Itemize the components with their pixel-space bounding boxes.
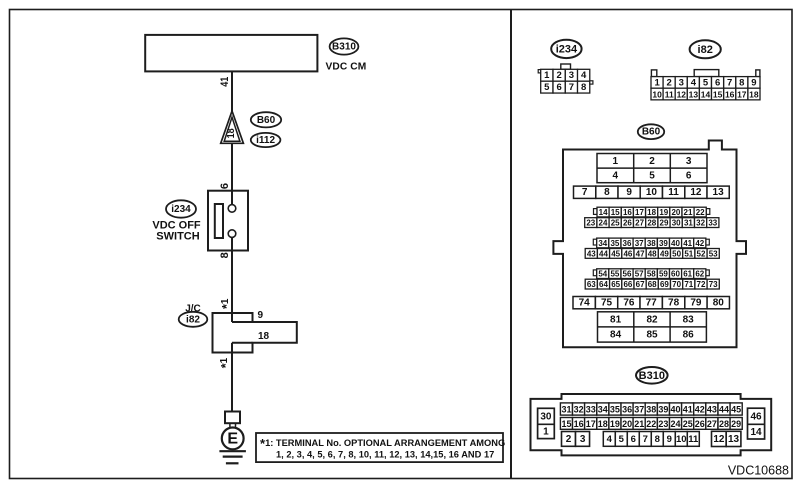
svg-text:39: 39 [658, 405, 668, 415]
svg-text:72: 72 [697, 280, 706, 289]
svg-text:36: 36 [622, 405, 632, 415]
B60 pin row 34-42 [597, 238, 706, 248]
svg-text:41: 41 [683, 405, 693, 415]
svg-text:29: 29 [731, 419, 741, 429]
pin number 41 (VDC CM) [219, 77, 231, 87]
svg-text:22: 22 [646, 419, 656, 429]
svg-text:55: 55 [610, 270, 619, 279]
B60 row 34-42 left end tab [593, 239, 596, 245]
svg-text:14: 14 [701, 90, 711, 100]
svg-text:64: 64 [599, 280, 608, 289]
i234 connector top tab [561, 64, 571, 69]
wire from VDC CM pin 41 to connector B60/i112 [231, 71, 233, 111]
svg-text:17: 17 [586, 419, 596, 429]
svg-text:SWITCH: SWITCH [156, 231, 199, 243]
svg-text:5: 5 [703, 77, 709, 88]
svg-text:59: 59 [659, 270, 668, 279]
svg-text:42: 42 [695, 405, 705, 415]
svg-text:4: 4 [607, 434, 613, 445]
svg-text:12: 12 [690, 187, 702, 198]
i82 connector left tab [651, 70, 656, 77]
svg-text:62: 62 [695, 270, 704, 279]
label VDC CM [326, 61, 367, 72]
svg-text:1: 1 [654, 77, 660, 88]
svg-text:53: 53 [709, 249, 718, 258]
svg-text:65: 65 [611, 280, 620, 289]
B60 pin row 7-13 [574, 186, 730, 198]
B60 pin row 74-80 [573, 297, 729, 309]
svg-text:16: 16 [725, 90, 735, 100]
svg-text:*1: *1 [219, 357, 233, 368]
inline connector symbol B60/i112 (double triangle) [221, 111, 244, 143]
pin number 18 (connector i112) [226, 128, 237, 138]
VDC CM control module box B310 [145, 35, 317, 72]
B60 pin grid 81-86 [598, 312, 707, 342]
svg-text:43: 43 [587, 249, 596, 258]
svg-text:45: 45 [731, 405, 741, 415]
svg-text:56: 56 [623, 270, 632, 279]
svg-text:48: 48 [648, 249, 657, 258]
i82 pin row 1-9 [651, 77, 760, 89]
svg-text:25: 25 [611, 219, 620, 228]
svg-text:60: 60 [671, 270, 680, 279]
svg-text:6: 6 [219, 183, 231, 189]
svg-text:7: 7 [569, 82, 574, 93]
svg-text:B310: B310 [332, 42, 356, 53]
svg-text:47: 47 [636, 249, 645, 258]
svg-text:9: 9 [751, 77, 756, 88]
svg-text:18: 18 [598, 419, 608, 429]
svg-text:79: 79 [690, 298, 702, 309]
connector label i234 (pinout) [551, 40, 581, 58]
svg-text:21: 21 [634, 419, 644, 429]
svg-text:77: 77 [646, 298, 658, 309]
svg-text:34: 34 [598, 239, 607, 248]
wire stub from lower switch contact [231, 237, 233, 250]
B60 row 54-62 right end tab [706, 270, 709, 276]
wire from connector to VDC OFF switch pin 6 [231, 143, 233, 190]
wire from switch pin 8 to joint connector [231, 251, 233, 314]
svg-text:10: 10 [652, 90, 662, 100]
VDC OFF SWITCH body [208, 191, 248, 251]
B60 row 34-42 right end tab [706, 239, 709, 245]
B60 connector outline with tabs [553, 141, 746, 348]
svg-text:83: 83 [683, 314, 695, 325]
svg-text:13: 13 [689, 90, 699, 100]
svg-text:8: 8 [219, 252, 231, 258]
svg-text:12: 12 [713, 434, 725, 445]
svg-text:32: 32 [574, 405, 584, 415]
svg-text:6: 6 [715, 77, 720, 88]
B60 row 54-62 left end tab [593, 270, 596, 276]
svg-text:28: 28 [647, 219, 656, 228]
svg-text:VDC10688: VDC10688 [728, 464, 789, 478]
svg-text:16: 16 [574, 419, 584, 429]
svg-text:16: 16 [623, 208, 632, 217]
svg-text:35: 35 [610, 405, 620, 415]
svg-text:86: 86 [683, 330, 695, 341]
svg-text:46: 46 [623, 249, 632, 258]
svg-text:37: 37 [634, 405, 644, 415]
panel divider line [510, 10, 512, 479]
svg-text:2: 2 [556, 70, 561, 81]
svg-text:B60: B60 [257, 115, 276, 126]
svg-text:31: 31 [561, 405, 571, 415]
svg-text:31: 31 [684, 219, 693, 228]
svg-text:24: 24 [670, 419, 680, 429]
svg-text:26: 26 [623, 219, 632, 228]
svg-text:14: 14 [599, 208, 608, 217]
svg-text:18: 18 [258, 331, 270, 342]
svg-text:73: 73 [709, 280, 718, 289]
svg-text:3: 3 [569, 70, 574, 81]
ground point E circle [222, 428, 244, 450]
svg-text:i234: i234 [171, 204, 191, 215]
svg-text:6: 6 [556, 82, 561, 93]
svg-text:6: 6 [686, 170, 692, 181]
svg-text:75: 75 [601, 298, 613, 309]
connector label B310 (VDC CM) [330, 38, 359, 54]
svg-text:1: 1 [543, 427, 549, 438]
pin label *1 below joint connector [219, 357, 233, 368]
svg-text:18: 18 [647, 208, 656, 217]
svg-text:25: 25 [683, 419, 693, 429]
svg-text:74: 74 [579, 298, 591, 309]
svg-text:63: 63 [587, 280, 596, 289]
i234 connector right lock tab [590, 81, 593, 84]
svg-text:46: 46 [750, 411, 762, 422]
svg-text:71: 71 [684, 280, 693, 289]
svg-text:24: 24 [599, 219, 608, 228]
svg-text:26: 26 [695, 419, 705, 429]
B60 row 14-22 right end tab [706, 209, 710, 215]
svg-text:27: 27 [635, 219, 644, 228]
svg-text:20: 20 [671, 208, 680, 217]
svg-text:28: 28 [719, 419, 729, 429]
svg-text:4: 4 [581, 70, 587, 81]
svg-text:36: 36 [623, 239, 632, 248]
ground terminal neck [230, 423, 236, 428]
i234 connector top-left lock tab [538, 70, 541, 73]
label VDC OFF SWITCH [152, 219, 201, 242]
i234 pin row 5-8 [541, 81, 590, 93]
lower switch contact [228, 230, 236, 238]
svg-text:23: 23 [586, 219, 595, 228]
switch actuator slot [215, 204, 223, 238]
svg-text:1: 1 [613, 156, 619, 167]
svg-text:17: 17 [737, 90, 747, 100]
svg-text:84: 84 [610, 330, 622, 341]
pin number 9 (J/C) [258, 310, 264, 321]
connector label B60 (pinout) [638, 124, 664, 139]
svg-text:6: 6 [631, 434, 636, 445]
svg-text:2: 2 [649, 156, 655, 167]
svg-text:80: 80 [713, 298, 725, 309]
label J/C [185, 303, 201, 314]
svg-text:7: 7 [643, 434, 648, 445]
svg-text:4: 4 [613, 170, 619, 181]
svg-text:50: 50 [672, 249, 681, 258]
svg-text:41: 41 [219, 77, 231, 87]
B310 pin row 4-11 [603, 432, 699, 447]
B60 pin row 43-53 [585, 249, 719, 259]
svg-text:11: 11 [668, 187, 679, 198]
svg-text:17: 17 [635, 208, 644, 217]
svg-text:8: 8 [739, 77, 744, 88]
connector label B60 [251, 112, 281, 127]
svg-text:76: 76 [623, 298, 635, 309]
svg-text:35: 35 [610, 239, 619, 248]
svg-text:2: 2 [667, 77, 672, 88]
svg-text:57: 57 [635, 270, 644, 279]
svg-text:67: 67 [636, 280, 645, 289]
i82 connector right tab [756, 70, 760, 77]
svg-text:1, 2, 3, 4, 5, 6, 7, 8, 10, 11: 1, 2, 3, 4, 5, 6, 7, 8, 10, 11, 12, 13, … [276, 449, 494, 459]
svg-text:14: 14 [750, 427, 762, 438]
svg-text:19: 19 [659, 208, 668, 217]
svg-text:40: 40 [670, 405, 680, 415]
svg-text:15: 15 [611, 208, 620, 217]
connector label i112 [251, 133, 281, 147]
svg-text:29: 29 [660, 219, 669, 228]
svg-text:2: 2 [566, 434, 572, 445]
svg-text:43: 43 [707, 405, 717, 415]
B310 pin row 15-29 [560, 418, 742, 430]
svg-text:9: 9 [258, 310, 264, 321]
svg-text:44: 44 [719, 405, 729, 415]
svg-text:39: 39 [659, 239, 668, 248]
svg-text:VDC OFF: VDC OFF [152, 219, 201, 231]
svg-text:18: 18 [749, 90, 759, 100]
svg-text:58: 58 [647, 270, 656, 279]
svg-text:37: 37 [635, 239, 644, 248]
B60 pin row 23-33 [585, 218, 719, 228]
svg-text:8: 8 [655, 434, 660, 445]
svg-text:11: 11 [665, 90, 674, 100]
svg-text:27: 27 [707, 419, 717, 429]
svg-text:5: 5 [649, 170, 655, 181]
ground symbol bars [219, 451, 246, 463]
svg-text:3: 3 [679, 77, 684, 88]
svg-text:40: 40 [671, 239, 680, 248]
svg-text:85: 85 [646, 330, 658, 341]
connector label B310 (pinout) [636, 367, 668, 384]
svg-text:7: 7 [582, 187, 588, 198]
svg-text:44: 44 [599, 249, 608, 258]
B60 pin row 63-73 [585, 279, 719, 289]
svg-text:51: 51 [684, 249, 693, 258]
svg-text:68: 68 [648, 280, 657, 289]
svg-text:B60: B60 [642, 127, 661, 138]
connector label i82 (pinout) [690, 40, 721, 58]
i234 pin row 1-4 [541, 69, 590, 81]
B310 pin row 12-13 [712, 431, 741, 446]
svg-text:33: 33 [586, 405, 596, 415]
svg-text:3: 3 [686, 156, 692, 167]
wire from joint connector to ground [231, 353, 233, 412]
svg-text:E: E [227, 431, 238, 448]
svg-text:10: 10 [676, 434, 687, 445]
svg-text:B310: B310 [639, 370, 665, 382]
svg-text:30: 30 [672, 219, 681, 228]
svg-text:23: 23 [658, 419, 668, 429]
upper switch contact [228, 205, 236, 213]
svg-text:10: 10 [646, 187, 658, 198]
joint connector J/C i82 body [213, 313, 297, 353]
svg-text:22: 22 [696, 208, 705, 217]
svg-text:33: 33 [708, 219, 717, 228]
B310 pin box 30/1 [538, 408, 555, 438]
svg-text:81: 81 [610, 314, 622, 325]
svg-text:18: 18 [226, 128, 237, 138]
wire stub to upper switch contact [231, 191, 233, 205]
svg-text:VDC CM: VDC CM [326, 61, 367, 72]
ground terminal block [225, 412, 240, 424]
svg-text:61: 61 [683, 270, 692, 279]
svg-text:12: 12 [677, 90, 687, 100]
svg-text:8: 8 [604, 187, 610, 198]
svg-text:70: 70 [672, 280, 681, 289]
i82 connector center tab [694, 70, 719, 77]
svg-text:30: 30 [540, 412, 552, 423]
pin number 18 (J/C) [258, 331, 270, 342]
svg-text:52: 52 [697, 249, 706, 258]
pin number 6 (switch) [219, 183, 231, 189]
B310 pin row 31-45 [560, 403, 742, 415]
svg-text:34: 34 [598, 405, 608, 415]
svg-text:20: 20 [622, 419, 632, 429]
B310 pin box 46/14 [748, 408, 765, 439]
B60 row 14-22 left end tab [594, 209, 598, 215]
B60 pin grid 1-6 [597, 154, 707, 183]
svg-text:54: 54 [598, 270, 607, 279]
svg-text:69: 69 [660, 280, 669, 289]
connector label i234 (switch) [166, 200, 196, 217]
B60 pin row 54-62 [597, 269, 706, 279]
B310 pin row 2-3 [562, 432, 590, 447]
svg-text:5: 5 [619, 434, 625, 445]
svg-text:42: 42 [695, 239, 704, 248]
svg-text:41: 41 [683, 239, 692, 248]
svg-text:1: 1 [544, 70, 550, 81]
svg-text:i234: i234 [556, 43, 578, 55]
i82 pin row 10-18 [651, 88, 760, 100]
svg-text:19: 19 [610, 419, 620, 429]
svg-text:15: 15 [561, 419, 571, 429]
svg-text:i82: i82 [698, 44, 713, 56]
svg-text:5: 5 [544, 82, 550, 93]
B60 pin row 14-22 [597, 207, 706, 217]
svg-text:9: 9 [667, 434, 672, 445]
note box *1 terminal arrangement [256, 433, 505, 462]
figure number VDC10688 [728, 464, 789, 478]
svg-text:13: 13 [713, 187, 725, 198]
svg-text:i112: i112 [256, 135, 275, 146]
pin number 8 (switch) [219, 252, 231, 258]
svg-text:38: 38 [647, 239, 656, 248]
svg-text:21: 21 [684, 208, 693, 217]
svg-text:32: 32 [696, 219, 705, 228]
svg-text:4: 4 [691, 77, 697, 88]
B310 connector outline [531, 394, 772, 455]
svg-text:11: 11 [688, 434, 699, 445]
svg-text:13: 13 [728, 434, 740, 445]
svg-text:15: 15 [713, 90, 723, 100]
svg-text:66: 66 [623, 280, 632, 289]
svg-text:i82: i82 [186, 314, 200, 325]
svg-text:82: 82 [646, 314, 658, 325]
svg-text:78: 78 [668, 298, 680, 309]
svg-text:9: 9 [626, 187, 632, 198]
svg-text:45: 45 [611, 249, 620, 258]
svg-text:3: 3 [580, 434, 586, 445]
svg-text:8: 8 [581, 82, 586, 93]
pin label *1 above joint connector [220, 298, 234, 309]
svg-text:38: 38 [646, 405, 656, 415]
svg-text:49: 49 [660, 249, 669, 258]
svg-text:7: 7 [727, 77, 732, 88]
connector label i82 (J/C) [179, 312, 208, 327]
